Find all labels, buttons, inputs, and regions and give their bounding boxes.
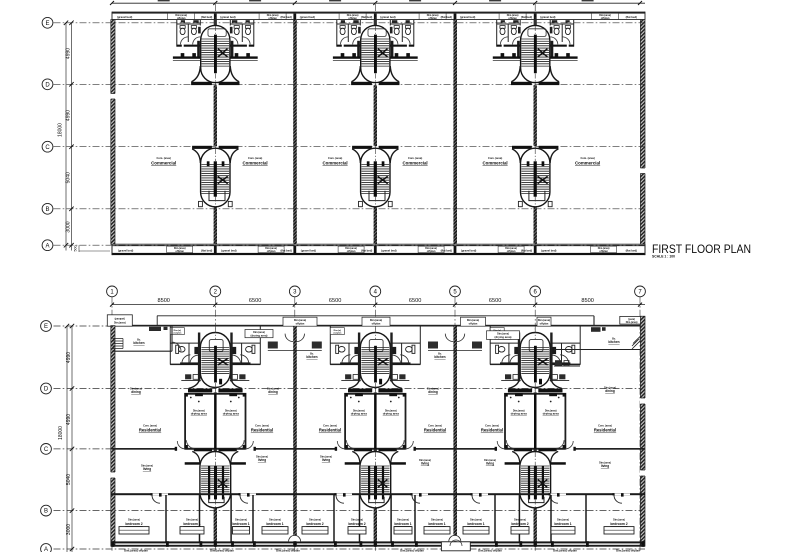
lower stair core unit 3 (ground floor) bbox=[505, 449, 566, 508]
dimension 4990 E-D (ground) bbox=[66, 352, 72, 363]
top stair core unit 1 (ground floor) bbox=[188, 333, 243, 393]
svg-text:Residential: Residential bbox=[319, 428, 341, 433]
door arcs at C wall unit 3 bbox=[497, 441, 573, 449]
C row wall (ground floor) bbox=[112, 447, 645, 451]
grid row B (ground floor) bbox=[41, 505, 645, 516]
grid row B (first floor) bbox=[42, 203, 645, 214]
label Residential bay 3 bbox=[319, 424, 341, 432]
svg-text:D: D bbox=[44, 387, 49, 393]
party wall grid 3 (ground floor) bbox=[293, 326, 297, 546]
top stair core unit 3 (ground floor) bbox=[508, 333, 563, 393]
svg-text:offplan: offplan bbox=[347, 249, 356, 253]
dimension 18000 total (ground) bbox=[58, 426, 64, 440]
grid column circle 7 bbox=[635, 286, 646, 551]
door bumps at grid walls bottom bbox=[289, 535, 461, 541]
svg-text:(gravel bed): (gravel bed) bbox=[117, 15, 132, 19]
svg-text:offplan: offplan bbox=[508, 16, 517, 20]
svg-text:500: 500 bbox=[74, 246, 78, 252]
svg-text:offplan: offplan bbox=[296, 322, 305, 326]
svg-text:(gravel bed): (gravel bed) bbox=[380, 15, 395, 19]
left exterior wall bbox=[111, 20, 115, 245]
dining rooms unit 1 (ground floor) bbox=[185, 393, 247, 448]
svg-text:Dim.(area): Dim.(area) bbox=[613, 518, 625, 521]
svg-text:4990: 4990 bbox=[66, 352, 72, 363]
svg-text:living: living bbox=[421, 462, 429, 466]
label dining bay 1 bbox=[130, 388, 142, 394]
svg-text:Residential: Residential bbox=[251, 428, 273, 433]
svg-text:Residential: Residential bbox=[139, 428, 161, 433]
stair core upper unit 3 (first floor) bbox=[493, 20, 578, 86]
dimension 4990 D-C (ground) bbox=[66, 414, 72, 425]
svg-text:(flat bed): (flat bed) bbox=[626, 248, 637, 252]
label living bay 1 bbox=[141, 465, 153, 471]
svg-text:bedroom 1: bedroom 1 bbox=[428, 522, 445, 526]
svg-text:4990: 4990 bbox=[66, 414, 72, 425]
svg-text:kitchen: kitchen bbox=[434, 355, 445, 359]
stair core lower unit 1 (first floor) bbox=[192, 146, 238, 207]
top wall band of first floor plan bbox=[112, 12, 645, 20]
grid column circle 5 bbox=[450, 286, 461, 551]
svg-text:(flat bed): (flat bed) bbox=[441, 15, 452, 19]
dimension 8500 bay 1 bbox=[157, 298, 169, 304]
wardrobe box x563 bbox=[551, 527, 575, 534]
label kitchen bay 6 bbox=[608, 338, 619, 344]
svg-text:offplan: offplan bbox=[348, 16, 357, 20]
svg-text:offplan: offplan bbox=[599, 249, 608, 253]
svg-text:offplan: offplan bbox=[601, 16, 610, 20]
svg-text:offplan: offplan bbox=[175, 249, 184, 253]
label bedroom 2 x134 bbox=[125, 518, 142, 526]
svg-text:Dim.(area): Dim.(area) bbox=[186, 518, 198, 521]
lower stair core unit 1 (ground floor) bbox=[185, 449, 246, 508]
label Residential bay 2 bbox=[251, 424, 273, 432]
svg-text:kitchen: kitchen bbox=[306, 355, 317, 359]
door arcs at C wall unit 1 bbox=[177, 441, 253, 449]
svg-text:Dim.(area): Dim.(area) bbox=[128, 518, 140, 521]
svg-text:bedroom 2: bedroom 2 bbox=[511, 522, 528, 526]
label bedroom 2 x315 bbox=[306, 518, 323, 526]
dining rooms unit 3 (ground floor) bbox=[504, 393, 566, 448]
label Commercial bay 5 bbox=[483, 156, 508, 165]
svg-text:C: C bbox=[44, 447, 49, 453]
kitchen room walls bay 6 bbox=[554, 316, 640, 350]
label living bay 5 bbox=[484, 459, 496, 465]
wardrobe box x192 bbox=[180, 527, 204, 534]
bathroom wing right unit 1 (ground floor) bbox=[230, 327, 261, 382]
entrance recess bay 4 bbox=[441, 540, 470, 551]
svg-text:Dim.(area): Dim.(area) bbox=[470, 518, 482, 521]
svg-text:Dim.(area): Dim.(area) bbox=[235, 518, 247, 521]
wc label box unit 3 bbox=[490, 328, 504, 335]
svg-text:(gravel bed): (gravel bed) bbox=[118, 248, 133, 252]
bedroom partition walls bbox=[166, 495, 586, 542]
dimension 6500 bay 2 bbox=[249, 298, 261, 304]
party wall segments grid 6 (ground floor) bbox=[534, 392, 537, 546]
wc fixtures at grid wall x455 bbox=[428, 334, 482, 351]
svg-text:offplan: offplan bbox=[268, 16, 277, 20]
svg-text:SCALE 1 : 100: SCALE 1 : 100 bbox=[652, 255, 675, 259]
stair core lower unit 3 (first floor) bbox=[512, 146, 558, 207]
svg-text:4990: 4990 bbox=[66, 110, 72, 121]
title FIRST FLOOR PLAN bbox=[652, 242, 751, 259]
svg-text:bedroom 1: bedroom 1 bbox=[467, 522, 484, 526]
grid row C (first floor) bbox=[42, 141, 645, 152]
bathroom wing left unit 3 (ground floor) bbox=[490, 327, 521, 382]
top dimension line bbox=[110, 1, 645, 5]
party wall segments grid 4 bbox=[374, 20, 377, 245]
grid row D (ground floor) bbox=[41, 383, 645, 394]
counter unit 3 right bbox=[554, 360, 580, 366]
label living bay 3 bbox=[320, 456, 332, 462]
svg-text:bedroom 1: bedroom 1 bbox=[394, 522, 411, 526]
party wall segments grid 2 bbox=[214, 20, 217, 245]
centerline through ground cores grid 6 bbox=[534, 328, 536, 510]
label Commercial bay 3 bbox=[323, 156, 348, 165]
kitchen fixtures bay 6 bbox=[591, 327, 606, 332]
offplan label box x544 bbox=[537, 317, 551, 326]
dimension 18000 total bbox=[58, 123, 64, 137]
svg-text:(flat bed): (flat bed) bbox=[201, 248, 212, 252]
svg-text:living: living bbox=[601, 464, 609, 468]
party wall segments grid 4 (ground floor) bbox=[374, 392, 377, 546]
svg-text:Dim.(area) offplan: Dim.(area) offplan bbox=[478, 549, 502, 552]
svg-text:(flat bed): (flat bed) bbox=[361, 15, 372, 19]
dimension 6500 bay 3 bbox=[329, 298, 341, 304]
svg-text:(flat bed): (flat bed) bbox=[280, 15, 291, 19]
svg-text:(gravel bed): (gravel bed) bbox=[381, 248, 396, 252]
dimension 5040 C-B bbox=[66, 172, 72, 183]
dimension 6500 bay 4 bbox=[409, 298, 421, 304]
svg-text:(gravel bed): (gravel bed) bbox=[300, 15, 315, 19]
svg-text:dining: dining bbox=[428, 390, 438, 394]
svg-text:Dim.(area): Dim.(area) bbox=[626, 321, 638, 324]
svg-text:living: living bbox=[258, 458, 266, 462]
svg-text:Residential: Residential bbox=[424, 428, 446, 433]
svg-text:living: living bbox=[143, 467, 151, 471]
dimension 5040 C-B (ground) bbox=[66, 474, 72, 485]
grid row C (ground floor) bbox=[41, 444, 645, 455]
svg-text:wc/plan: wc/plan bbox=[173, 333, 182, 335]
svg-text:offplan: offplan bbox=[469, 322, 478, 326]
svg-text:Dim.(area) offplan: Dim.(area) offplan bbox=[400, 549, 424, 552]
label kitchen bay 4 bbox=[434, 353, 445, 359]
svg-text:(parapet): (parapet) bbox=[115, 318, 125, 321]
svg-text:Residential: Residential bbox=[594, 428, 616, 433]
svg-text:(drying area): (drying area) bbox=[251, 334, 268, 338]
grid 6 centerline (first floor) bbox=[534, 4, 536, 244]
svg-text:(gravel bed): (gravel bed) bbox=[460, 15, 475, 19]
dimension 4990 E-D bbox=[66, 48, 72, 59]
offplan label box x376 bbox=[362, 317, 390, 326]
svg-text:Dim.(area) offplan: Dim.(area) offplan bbox=[210, 549, 234, 552]
kitchen room walls bay 1 bbox=[112, 326, 172, 351]
label bedroom 2 x520 bbox=[511, 518, 528, 526]
right exterior wall (ground floor) bbox=[640, 316, 645, 546]
label dining bay 6 bbox=[604, 387, 616, 393]
stair core upper unit 2 (first floor) bbox=[333, 20, 418, 86]
svg-text:C: C bbox=[45, 145, 50, 151]
wc label box unit 2 bbox=[330, 328, 344, 335]
vertical dimension lines (first floor) bbox=[64, 21, 74, 251]
svg-text:living: living bbox=[486, 462, 494, 466]
bathroom wing right unit 3 (ground floor) bbox=[550, 327, 581, 382]
svg-text:Dim.(area) offplan: Dim.(area) offplan bbox=[553, 549, 577, 552]
svg-text:8500: 8500 bbox=[157, 298, 169, 304]
wardrobe box x403 bbox=[394, 527, 412, 534]
label Commercial bay 2 bbox=[243, 156, 268, 165]
party wall grid 3 bbox=[293, 20, 297, 245]
svg-text:bedroom 1: bedroom 1 bbox=[554, 522, 571, 526]
dimension 6500 bay 5 bbox=[489, 298, 501, 304]
svg-text:kitchen: kitchen bbox=[608, 340, 619, 344]
wardrobe box x437 bbox=[424, 527, 450, 534]
svg-text:offplan: offplan bbox=[540, 322, 549, 326]
svg-text:Dim.(area) offplan: Dim.(area) offplan bbox=[276, 549, 300, 552]
svg-text:Dim.(area) offplan: Dim.(area) offplan bbox=[616, 549, 640, 552]
svg-text:Dim.(area): Dim.(area) bbox=[309, 518, 321, 521]
door gap left wall bbox=[110, 94, 115, 100]
svg-text:kitchen: kitchen bbox=[133, 341, 144, 345]
offplan label box x300 bbox=[283, 317, 317, 326]
dimension 4990 D-C bbox=[66, 110, 72, 121]
label bedroom 2 x619 bbox=[610, 518, 627, 526]
label Residential bay 6 bbox=[594, 424, 616, 432]
svg-text:(flat bed): (flat bed) bbox=[626, 15, 637, 19]
svg-text:Dim.(area): Dim.(area) bbox=[370, 319, 382, 322]
svg-text:Commercial: Commercial bbox=[323, 160, 348, 165]
dimension 3000 B-A (ground) bbox=[66, 524, 72, 535]
party wall segments grid 2 (ground floor) bbox=[214, 392, 217, 546]
label bedroom 1 x563 bbox=[554, 518, 571, 526]
svg-text:bedroom 1: bedroom 1 bbox=[232, 522, 249, 526]
svg-text:(gravel bed): (gravel bed) bbox=[301, 248, 316, 252]
svg-text:E: E bbox=[45, 21, 49, 27]
left exterior wall (ground floor) bbox=[111, 326, 115, 547]
grid column circle 6 bbox=[530, 286, 541, 551]
svg-text:Dim.(area): Dim.(area) bbox=[538, 319, 550, 322]
svg-text:Dim.(area): Dim.(area) bbox=[269, 518, 281, 521]
wardrobe box x241 bbox=[233, 527, 250, 534]
bedroom wall (ground floor) bbox=[111, 493, 645, 503]
grid column circle 2 bbox=[210, 286, 221, 551]
label Commercial bay 6 bbox=[575, 156, 600, 165]
svg-text:dining: dining bbox=[268, 390, 278, 394]
svg-text:A: A bbox=[45, 243, 49, 249]
stair core lower unit 2 (first floor) bbox=[352, 146, 398, 207]
dimension 8500 bay 6 bbox=[581, 298, 593, 304]
bottom wall posts bbox=[112, 541, 645, 547]
stair core upper unit 1 (first floor) bbox=[173, 20, 258, 86]
centerline through cores grid 2 bbox=[214, 26, 216, 207]
party wall grid 5 (ground floor) bbox=[453, 326, 457, 546]
svg-text:bedroom 2: bedroom 2 bbox=[125, 522, 142, 526]
svg-text:Dim.(area) offplan: Dim.(area) offplan bbox=[124, 549, 148, 552]
wardrobe box x275 bbox=[262, 527, 288, 534]
canopy line (ground floor) bbox=[157, 316, 594, 325]
svg-text:bedroom 1: bedroom 1 bbox=[183, 522, 200, 526]
door gap right wall bbox=[640, 168, 646, 174]
svg-text:B: B bbox=[45, 207, 49, 213]
svg-text:6500: 6500 bbox=[409, 298, 421, 304]
right exterior wall bbox=[640, 20, 645, 245]
grid row A (first floor) bbox=[42, 240, 645, 251]
centerline through cores grid 6 bbox=[534, 26, 536, 207]
bottom wall band of first floor plan bbox=[112, 244, 645, 255]
svg-text:E: E bbox=[44, 324, 48, 330]
label dining bay 2 bbox=[267, 388, 279, 394]
svg-text:Dim.(area): Dim.(area) bbox=[351, 518, 363, 521]
label Commercial bay 4 bbox=[403, 156, 428, 165]
label bedroom 1 x192 bbox=[183, 518, 200, 526]
offplan label box x473 bbox=[461, 317, 486, 326]
grid row A (ground floor) bbox=[41, 544, 645, 552]
svg-text:3000: 3000 bbox=[66, 221, 72, 232]
svg-text:6500: 6500 bbox=[489, 298, 501, 304]
svg-text:(gravel bed): (gravel bed) bbox=[541, 248, 556, 252]
svg-text:A: A bbox=[44, 547, 48, 552]
cut-off dimension labels bbox=[158, 0, 594, 1]
label living bay 2 bbox=[256, 456, 268, 462]
dining rooms unit 2 (ground floor) bbox=[345, 393, 407, 448]
centerline through ground cores grid 4 bbox=[374, 328, 376, 510]
svg-text:Dim.(area): Dim.(area) bbox=[514, 518, 526, 521]
label living bay 6 bbox=[599, 462, 611, 468]
svg-text:(flat bed): (flat bed) bbox=[521, 15, 532, 19]
svg-text:8500: 8500 bbox=[581, 298, 593, 304]
svg-text:Commercial: Commercial bbox=[575, 160, 600, 165]
svg-text:dining: dining bbox=[605, 389, 615, 393]
grid column circle 4 bbox=[370, 286, 381, 551]
wardrobe box x357 bbox=[348, 527, 366, 534]
wardrobe box x134 bbox=[119, 527, 149, 534]
svg-text:wc/plan: wc/plan bbox=[333, 333, 342, 335]
svg-text:D: D bbox=[45, 82, 50, 88]
svg-text:Dim.(a): Dim.(a) bbox=[174, 330, 182, 332]
wardrobe box x476 bbox=[463, 527, 489, 534]
svg-text:bedroom 2: bedroom 2 bbox=[306, 522, 323, 526]
bathroom wing left unit 2 (ground floor) bbox=[330, 327, 361, 382]
svg-text:bedroom 2: bedroom 2 bbox=[610, 522, 627, 526]
party wall segments grid 6 bbox=[534, 20, 537, 245]
svg-text:Dim.(a): Dim.(a) bbox=[334, 330, 342, 332]
svg-text:B: B bbox=[44, 509, 48, 515]
wc label box unit 1 bbox=[170, 328, 184, 335]
centerline through ground cores grid 2 bbox=[214, 328, 216, 510]
svg-text:18000: 18000 bbox=[58, 123, 64, 137]
svg-text:offplan: offplan bbox=[372, 322, 381, 326]
svg-text:Dim.(area): Dim.(area) bbox=[397, 518, 409, 521]
svg-text:4990: 4990 bbox=[66, 48, 72, 59]
label kitchen bay 3 bbox=[306, 353, 317, 359]
grid 4 centerline (first floor) bbox=[374, 4, 376, 244]
svg-text:Commercial: Commercial bbox=[483, 160, 508, 165]
grid 2 centerline (first floor) bbox=[214, 4, 216, 244]
svg-text:Dim.(area): Dim.(area) bbox=[294, 319, 306, 322]
svg-text:Commercial: Commercial bbox=[403, 160, 428, 165]
svg-text:Dim.(area): Dim.(area) bbox=[467, 319, 479, 322]
entrance steps left bbox=[113, 339, 124, 349]
label Residential bay 4 bbox=[424, 424, 446, 432]
grid column circle 3 bbox=[289, 286, 300, 551]
label bedroom 2 x357 bbox=[348, 518, 365, 526]
svg-text:Dim.(area): Dim.(area) bbox=[431, 518, 443, 521]
label Residential bay 1 bbox=[139, 424, 161, 432]
dimension 3000 B-A bbox=[66, 221, 72, 232]
svg-text:offplan: offplan bbox=[427, 249, 436, 253]
svg-text:offplan: offplan bbox=[428, 16, 437, 20]
svg-text:5040: 5040 bbox=[66, 474, 72, 485]
tiny text under bottom wall bbox=[124, 549, 640, 552]
grid row D (first floor) bbox=[42, 79, 645, 90]
parapet box top-right corner bbox=[620, 316, 644, 324]
wardrobe box x315 bbox=[302, 527, 328, 534]
drying area box bay 5 bbox=[487, 331, 520, 340]
lower stair core unit 2 (ground floor) bbox=[345, 449, 406, 508]
label Residential bay 5 bbox=[481, 424, 503, 432]
label bedroom 1 x403 bbox=[394, 518, 411, 526]
svg-text:(gravel bed): (gravel bed) bbox=[461, 248, 476, 252]
label bedroom 1 x275 bbox=[266, 518, 283, 526]
drying area box bay 2 bbox=[245, 330, 273, 338]
label kitchen bay 1 bbox=[133, 339, 144, 345]
svg-text:Dim.(area): Dim.(area) bbox=[557, 518, 569, 521]
top stair core unit 2 (ground floor) bbox=[348, 333, 403, 393]
grid row E (first floor) bbox=[42, 17, 645, 28]
svg-text:offplan: offplan bbox=[267, 249, 276, 253]
column dimension line (ground floor) bbox=[110, 303, 645, 307]
label bedroom 1 x476 bbox=[467, 518, 484, 526]
label bedroom 1 x437 bbox=[428, 518, 445, 526]
svg-text:(flat bed): (flat bed) bbox=[441, 248, 452, 252]
entrance steps right bbox=[632, 337, 640, 350]
svg-text:5040: 5040 bbox=[66, 172, 72, 183]
svg-text:(gravel bed): (gravel bed) bbox=[221, 248, 236, 252]
grid column circle 1 bbox=[107, 286, 118, 551]
svg-text:offplan: offplan bbox=[177, 16, 186, 20]
svg-text:(flat bed): (flat bed) bbox=[521, 248, 532, 252]
svg-text:(drying area): (drying area) bbox=[495, 335, 512, 339]
svg-text:(gravel bed): (gravel bed) bbox=[220, 15, 235, 19]
svg-text:bedroom 2: bedroom 2 bbox=[348, 522, 365, 526]
label dining bay 4 bbox=[427, 388, 439, 394]
top wall (ground floor) bbox=[112, 325, 645, 327]
kitchen fixtures bay 1 bbox=[149, 327, 181, 351]
parapet box top-left corner bbox=[107, 315, 132, 326]
bathroom wing right unit 2 (ground floor) bbox=[390, 327, 421, 382]
svg-text:bedroom 1: bedroom 1 bbox=[266, 522, 283, 526]
wardrobe box x619 bbox=[604, 527, 634, 534]
label bedroom 1 x241 bbox=[232, 518, 249, 526]
vertical dimension lines (ground floor) bbox=[65, 324, 74, 552]
svg-text:(flat bed): (flat bed) bbox=[201, 15, 212, 19]
wc fixtures at grid wall x294 bbox=[268, 334, 322, 351]
label living bay 4 bbox=[419, 459, 431, 465]
door gaps ground outer walls bbox=[110, 398, 645, 478]
svg-text:6500: 6500 bbox=[329, 298, 341, 304]
svg-text:(gravel bed): (gravel bed) bbox=[540, 15, 555, 19]
door arcs at C wall unit 2 bbox=[337, 441, 413, 449]
svg-text:living: living bbox=[322, 458, 330, 462]
svg-text:18000: 18000 bbox=[58, 426, 64, 440]
svg-text:Dim.(area): Dim.(area) bbox=[114, 321, 126, 324]
wardrobe box x520 bbox=[511, 527, 529, 534]
svg-text:Residential: Residential bbox=[481, 428, 503, 433]
grid row E (ground floor) bbox=[41, 321, 645, 332]
svg-text:Commercial: Commercial bbox=[243, 160, 268, 165]
svg-text:dining: dining bbox=[131, 390, 141, 394]
label Commercial bay 1 bbox=[151, 156, 176, 165]
svg-text:3000: 3000 bbox=[66, 524, 72, 535]
